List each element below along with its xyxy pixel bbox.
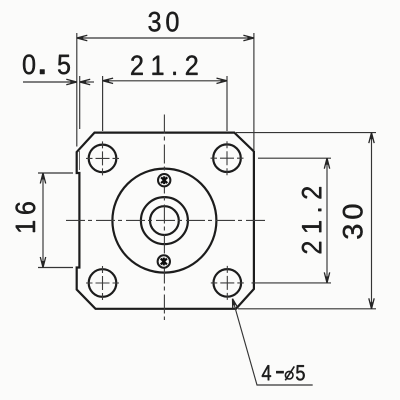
recessed edge extension line — [79, 151, 81, 170]
dim 21.2 right extension bottom — [252, 282, 332, 284]
dim 16 extension top — [38, 172, 73, 174]
dim 21.2 right text — [302, 187, 322, 253]
dim 21.2 right line — [326, 158, 328, 283]
label 4-phi5 phi symbol — [285, 366, 294, 380]
dim 30 right text — [343, 205, 363, 239]
dim 0.5 text — [23, 55, 70, 75]
dim 0.5 tail left — [23, 81, 77, 83]
dim 16 arrow top — [40, 173, 45, 184]
corner hole bottom-left — [89, 269, 117, 297]
middle circle — [141, 197, 188, 244]
screw top star mark — [161, 176, 167, 184]
dim 21.2 top arrow left — [103, 78, 114, 83]
hole cross bottom-right — [211, 266, 244, 300]
dim 0.5 tail right — [80, 81, 94, 83]
dim 0.5 arrow right — [80, 79, 91, 84]
dim 30 top text — [149, 12, 179, 32]
hole cross bottom-left — [86, 266, 119, 300]
dim 30 top arrow left — [77, 35, 88, 40]
dim 0.5 extension right — [79, 76, 81, 129]
dim 21.2 top line — [103, 80, 227, 82]
dim 30 top extension left — [76, 33, 78, 147]
dim 30 top arrow right — [243, 35, 254, 40]
dim 30 right arrow bottom — [369, 298, 374, 309]
screw top circle — [158, 174, 170, 186]
horizontal center line — [66, 219, 268, 221]
dim 30 right extension bottom — [238, 308, 376, 310]
dim 21.2 right extension top — [258, 157, 331, 159]
corner hole bottom-right — [214, 269, 242, 297]
screw bottom star mark — [161, 258, 167, 266]
dim 16 text — [16, 202, 36, 232]
corner hole top-left — [89, 145, 117, 173]
corner hole top-right — [213, 144, 241, 172]
leader 4-phi5 line — [233, 299, 313, 385]
dim 16 extension bottom — [38, 267, 73, 269]
dim 21.2 top extension left — [102, 76, 104, 131]
hole cross top-right — [211, 141, 244, 175]
hole cross top-left — [86, 141, 119, 175]
center bore — [150, 206, 179, 235]
dim 21.2 top arrow right — [217, 78, 228, 83]
dim 30 top extension right — [253, 33, 255, 150]
dim 30 right extension top — [236, 132, 376, 134]
leader 4-phi5 arrow — [230, 298, 238, 310]
vertical center line — [163, 115, 165, 321]
dim 21.2 right arrow bottom — [324, 272, 329, 283]
label 4-phi5 text 4 — [262, 365, 271, 380]
dim 16 line — [42, 173, 44, 268]
pilot boss circle — [112, 169, 216, 273]
plate outline — [77, 133, 254, 309]
dim 21.2 top extension right — [226, 76, 228, 131]
label 4-phi5 text 5 — [296, 365, 305, 380]
dim 30 right arrow top — [369, 133, 374, 144]
dim 0.5 arrow left — [66, 79, 77, 84]
dim 30 right line — [371, 133, 373, 309]
dim 21.2 top text — [131, 55, 197, 75]
label 4-phi5 hyphen — [276, 371, 283, 373]
dim 21.2 right arrow top — [324, 158, 329, 169]
screw bottom circle — [158, 255, 170, 267]
dim 16 arrow bottom — [40, 257, 45, 268]
dim 30 top line — [77, 37, 254, 39]
